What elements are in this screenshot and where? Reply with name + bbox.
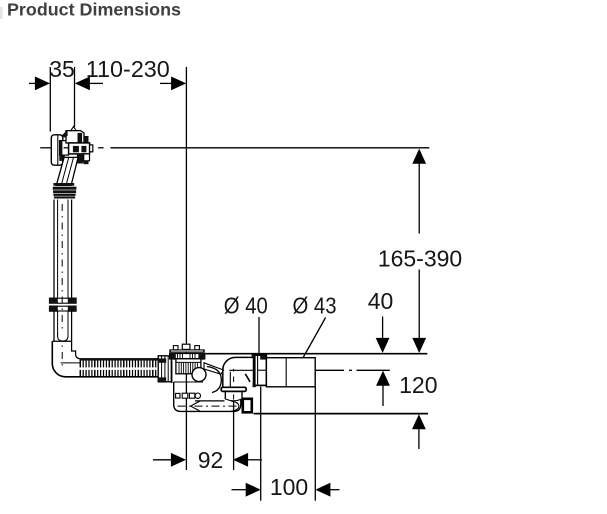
tube centreline dashed	[61, 204, 63, 368]
elbow rim	[52, 340, 71, 342]
rosette plate	[51, 135, 63, 165]
hose coupling nut	[158, 356, 171, 383]
tub bottom reference line	[206, 353, 428, 355]
flange lower plate	[170, 353, 205, 358]
dim 165-390 bottom arrow	[418, 270, 420, 340]
elbow bore slant	[245, 374, 250, 382]
bracket	[60, 141, 69, 156]
dia 43 leader	[297, 318, 325, 369]
dim 165-390 top arrow	[412, 149, 426, 164]
svg-text:Ø 43: Ø 43	[293, 293, 337, 319]
extension line right of 110-230 (drain centre)	[185, 67, 187, 470]
extension line sleeve end	[314, 388, 316, 501]
svg-text:110-230: 110-230	[86, 56, 170, 82]
tailpiece threads	[179, 363, 197, 374]
trap pipe nose	[191, 401, 200, 411]
dim 40 up arrow	[376, 371, 390, 386]
dim 92 line and arrows	[153, 459, 171, 461]
elbow bore top	[229, 369, 254, 371]
elbow outer wall	[223, 357, 254, 387]
corrugated hose ridges	[80, 360, 161, 376]
outlet stub	[243, 399, 252, 413]
svg-text:165-390: 165-390	[378, 246, 462, 272]
handle block	[69, 143, 90, 154]
elbow centre dash-dot	[233, 369, 235, 400]
flange top plate	[169, 349, 204, 352]
centreline dash over fitting	[64, 147, 69, 149]
svg-text:35: 35	[49, 56, 75, 82]
end cap	[90, 145, 93, 152]
svg-text:40: 40	[368, 288, 394, 314]
corner mark	[0, 7, 3, 19]
tower	[66, 131, 84, 143]
trap pipe top edge	[195, 400, 225, 402]
diagonal tube	[56, 157, 78, 185]
extension line nut centre	[260, 387, 262, 501]
outlet centreline dashes	[316, 369, 344, 371]
tailpiece	[176, 359, 201, 374]
float ball	[192, 368, 206, 382]
lower reference line	[254, 413, 428, 415]
elbow tail	[224, 391, 226, 399]
screw head	[182, 344, 190, 349]
inner tube rounded end	[58, 332, 68, 341]
horn to elbow	[204, 363, 224, 374]
svg-text:92: 92	[198, 447, 224, 473]
below block black outlet	[77, 154, 84, 164]
elbow right face	[253, 356, 255, 385]
dim 100 line and arrows	[232, 489, 247, 491]
clamp bands	[49, 298, 58, 304]
dia 40 leader	[258, 317, 260, 354]
elbow centre extension line	[233, 401, 235, 471]
dim 120 bottom arrow	[412, 414, 426, 429]
eco marks	[176, 393, 180, 398]
extension line between 35 and 110-230	[74, 67, 76, 127]
trap pipe right end	[231, 401, 239, 411]
svg-text:Product Dimensions: Product Dimensions	[7, 0, 181, 20]
elbow outer wall	[52, 341, 161, 377]
svg-text:120: 120	[399, 372, 437, 398]
dim 110-230 right arrow	[160, 82, 172, 84]
svg-text:100: 100	[270, 474, 308, 500]
tube below clamp	[53, 312, 55, 342]
dim 35 left arrow	[29, 82, 37, 84]
nut lips	[252, 354, 257, 358]
compression nut	[255, 355, 267, 385]
extension line left of 35	[49, 67, 51, 132]
dim 35/110-230 shared arrow	[75, 77, 90, 91]
elbow collar	[221, 387, 246, 391]
elbow inner wall	[72, 341, 161, 359]
overflow centreline	[40, 147, 51, 149]
elbow bore left	[229, 372, 231, 387]
right bulge	[207, 367, 221, 393]
trap cup	[174, 382, 241, 411]
vertical tube outer walls	[53, 200, 55, 298]
trap pipe centreline	[178, 405, 237, 407]
side posts	[173, 346, 178, 350]
svg-text:Ø 40: Ø 40	[224, 293, 268, 319]
dim 40 down arrow	[382, 317, 384, 340]
elbow inner top line	[61, 362, 80, 364]
connector rings	[53, 183, 74, 186]
body left wall	[171, 361, 173, 384]
vertical tube inner walls	[57, 200, 59, 298]
sleeve pipe	[266, 358, 315, 387]
